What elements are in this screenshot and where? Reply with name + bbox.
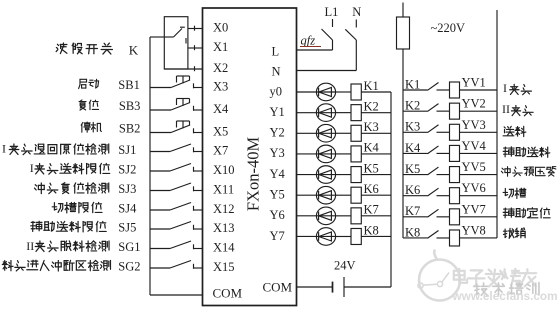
wire: PLC output row 0 to lamp <box>297 91 317 93</box>
designator K <box>129 43 139 58</box>
svg-text:SJ5: SJ5 <box>118 221 136 235</box>
designator SB3 <box>119 99 141 113</box>
wire: left input common bus <box>149 37 151 295</box>
label YV6 <box>462 181 486 195</box>
wire: N switch to PLC N <box>297 70 357 72</box>
watermark text 电子发烧友 <box>454 269 536 287</box>
wire: coil K3 to 24V bus <box>361 132 391 134</box>
pin label X14 <box>213 241 235 255</box>
label YV1 <box>462 76 486 90</box>
label K2 <box>364 99 379 113</box>
label: 拔销 <box>503 228 525 238</box>
wire: coil K8 to 24V bus <box>361 235 391 237</box>
pin label L <box>272 45 280 59</box>
label FXon-40M <box>244 137 263 212</box>
selector K lower contact <box>185 38 187 44</box>
wire: PLC output row 3 to lamp <box>297 153 317 155</box>
label K4 <box>364 141 380 155</box>
svg-text:YV4: YV4 <box>462 139 487 153</box>
label K7 (contact) <box>405 204 420 218</box>
pin label X12 <box>213 202 235 216</box>
limit switch SJ1 <box>150 144 203 152</box>
svg-text:K5: K5 <box>364 161 379 175</box>
svg-text:SG1: SG1 <box>118 240 140 254</box>
label YV7 <box>462 202 486 216</box>
wire: PLC output row 7 to lamp <box>297 235 317 237</box>
relay coil K4 <box>351 146 361 162</box>
label YV2 <box>462 97 486 111</box>
label K3 (contact) <box>405 120 420 134</box>
pin label X5 <box>213 125 228 139</box>
wire: lamp to relay coil K1 <box>336 91 351 93</box>
label L1 <box>325 5 339 19</box>
label K8 <box>364 223 379 237</box>
svg-text:FXon-40M: FXon-40M <box>244 137 263 212</box>
wire: YV6 to AC right bus <box>460 195 498 197</box>
svg-text:SJ2: SJ2 <box>118 163 136 177</box>
switch QF pole L1 <box>322 19 333 50</box>
designator SJ5 <box>118 221 136 235</box>
wire: lamp to relay coil K2 <box>336 112 351 114</box>
solenoid valve YV2 <box>450 103 460 119</box>
wire: PLC output row 1 to lamp <box>297 112 317 114</box>
label K4 (contact) <box>405 141 421 155</box>
label K2 (contact) <box>405 99 420 113</box>
svg-text:Y1: Y1 <box>270 105 285 119</box>
designator SJ3 <box>118 182 136 196</box>
svg-text:I: I <box>2 142 6 156</box>
svg-text:24V: 24V <box>334 259 356 273</box>
relay contact K6 <box>403 188 450 196</box>
pin label Y5 <box>270 188 285 202</box>
svg-text:II: II <box>502 102 510 116</box>
svg-text:N: N <box>272 65 281 79</box>
label: 冲头预压紧 <box>501 167 555 177</box>
wire: coil K2 to 24V bus <box>361 112 391 114</box>
svg-text:SJ3: SJ3 <box>118 182 136 196</box>
wire: K to X1 <box>188 45 203 50</box>
svg-text:www.elecfans.com: www.elecfans.com <box>452 289 558 303</box>
pin label Y1 <box>270 105 285 119</box>
svg-text:YV1: YV1 <box>462 76 486 90</box>
svg-text:II: II <box>26 239 34 253</box>
wire: battery to 24V bus <box>344 286 391 288</box>
svg-text:Y6: Y6 <box>270 208 285 222</box>
label YV5 <box>462 160 486 174</box>
relay coil K7 <box>351 208 361 224</box>
label ~220V <box>431 21 466 35</box>
label K7 <box>364 203 379 217</box>
svg-text:X4: X4 <box>213 102 229 116</box>
label K6 (contact) <box>405 183 420 197</box>
wire: bus to K common <box>150 36 164 38</box>
label K5 <box>364 161 379 175</box>
label YV8 <box>462 223 486 237</box>
wire: YV3 to AC right bus <box>460 131 498 133</box>
wire: K to X0 <box>188 26 203 31</box>
svg-text:K4: K4 <box>364 141 380 155</box>
svg-text:K1: K1 <box>405 77 420 91</box>
designator SB2 <box>119 121 141 135</box>
label: 波段开关 <box>56 43 112 54</box>
svg-text:Y2: Y2 <box>270 126 285 140</box>
svg-text:X3: X3 <box>213 80 228 94</box>
wire: AC left bus <box>402 3 404 238</box>
label: I夹头退回原位检测 <box>2 142 109 156</box>
designator SG2 <box>118 260 140 274</box>
svg-text:y0: y0 <box>270 84 283 98</box>
solenoid valve YV6 <box>450 188 460 204</box>
limit switch SJ5 <box>150 222 203 230</box>
relay contact K5 <box>403 167 450 175</box>
svg-text:Y5: Y5 <box>270 188 285 202</box>
indicator lamp HL6 (LED in circle) <box>316 186 335 204</box>
label: 切槽 <box>503 188 526 198</box>
wire: YV2 to AC right bus <box>460 110 498 112</box>
wire: K box bottom to X2 <box>164 66 202 71</box>
pin label X3 <box>213 80 228 94</box>
solenoid valve YV5 <box>450 167 460 183</box>
PLC controller U1 FXon-40M box <box>203 8 297 306</box>
label: 辅助送料 <box>503 147 550 157</box>
svg-text:K8: K8 <box>405 225 420 239</box>
pin label N <box>272 65 281 79</box>
svg-text:I: I <box>503 81 507 95</box>
wire: lamp to relay coil K8 <box>336 235 351 237</box>
wire: AC right bus <box>496 10 498 238</box>
label: 复位 <box>79 100 99 110</box>
pin label X4 <box>213 102 229 116</box>
wire: L1 switch to PLC L <box>297 49 333 51</box>
relay contact K7 <box>403 209 450 217</box>
wire: PLC COM to battery <box>297 286 333 288</box>
svg-text:L1: L1 <box>325 5 339 19</box>
label YV3 <box>462 118 486 132</box>
pin label COM (output side) <box>263 280 293 295</box>
pin label Y7 <box>270 229 285 243</box>
label: 辅助定位 <box>503 208 550 218</box>
designator SJ4 <box>118 202 137 216</box>
svg-text:SG2: SG2 <box>118 260 140 274</box>
svg-text:Y4: Y4 <box>270 167 286 181</box>
pin label X10 <box>213 163 235 177</box>
solenoid valve YV4 <box>450 145 460 161</box>
svg-text:qfz: qfz <box>301 34 316 48</box>
svg-text:K7: K7 <box>364 203 379 217</box>
indicator lamp HL2 (LED in circle) <box>316 104 335 122</box>
switch QF pole N <box>345 20 356 71</box>
label YV4 <box>462 139 487 153</box>
relay coil K3 <box>351 125 361 141</box>
wire: lamp to relay coil K5 <box>336 174 351 176</box>
limit switch SJ4 <box>150 203 203 211</box>
pin label X1 <box>213 40 228 54</box>
label: 冲头复位检测 <box>34 183 108 194</box>
svg-text:X2: X2 <box>213 61 228 75</box>
label: 切槽限位 <box>52 202 102 212</box>
wire: lamp to relay coil K3 <box>336 132 351 134</box>
svg-text:X0: X0 <box>213 21 228 35</box>
svg-text:K6: K6 <box>364 182 379 196</box>
label qfz <box>300 34 321 48</box>
pin label Y2 <box>270 126 285 140</box>
wire: PLC output row 4 to lamp <box>297 174 317 176</box>
svg-text:K1: K1 <box>364 79 379 93</box>
label: 辅助送料限位 <box>31 221 106 232</box>
pin label X2 <box>213 61 228 75</box>
svg-text:K3: K3 <box>405 120 420 134</box>
pin label X0 <box>213 21 228 35</box>
relay coil K2 <box>351 105 361 121</box>
wire: YV1 to AC right bus <box>460 89 498 91</box>
label K1 <box>364 79 379 93</box>
svg-text:YV2: YV2 <box>462 97 486 111</box>
svg-text:K8: K8 <box>364 223 379 237</box>
limit switch SJ3 <box>150 183 203 191</box>
label: 启动 <box>79 79 99 88</box>
svg-text:SJ4: SJ4 <box>118 202 137 216</box>
svg-text:X14: X14 <box>213 241 235 255</box>
label K3 <box>364 120 379 134</box>
svg-text:K: K <box>129 43 139 58</box>
label K1 (contact) <box>405 77 420 91</box>
svg-text:I: I <box>30 161 34 175</box>
svg-text:K5: K5 <box>405 162 420 176</box>
battery 24V <box>333 277 345 297</box>
pin label COM (input side) <box>213 286 243 301</box>
label N <box>352 5 361 19</box>
label K5 (contact) <box>405 162 420 176</box>
indicator lamp HL8 (LED in circle) <box>316 228 335 246</box>
designator SJ2 <box>118 163 136 177</box>
svg-text:SB2: SB2 <box>119 121 141 135</box>
indicator lamp HL5 (LED in circle) <box>316 166 335 184</box>
relay contact K1 <box>403 83 450 91</box>
svg-text:~220V: ~220V <box>431 21 466 35</box>
wire: coil K1 to 24V bus <box>361 91 391 93</box>
svg-text:K2: K2 <box>364 99 379 113</box>
wire: coil K6 to 24V bus <box>361 194 391 196</box>
label: I夹头送料限位 <box>30 161 110 175</box>
svg-text:K2: K2 <box>405 99 420 113</box>
label: II夹头 <box>502 102 533 116</box>
pin label X11 <box>213 183 234 197</box>
designator SJ1 <box>118 143 136 157</box>
svg-text:YV6: YV6 <box>462 181 486 195</box>
limit switch SJ2 <box>150 164 203 172</box>
wire: 24V right bus <box>390 92 392 287</box>
limit switch SG2 <box>150 261 203 269</box>
wire: lamp to relay coil K7 <box>336 215 351 217</box>
pin label Y6 <box>270 208 285 222</box>
designator SB1 <box>118 78 140 92</box>
pushbutton SB1 <box>150 76 203 88</box>
wire: coil K4 to 24V bus <box>361 153 391 155</box>
relay contact K8 <box>403 230 450 238</box>
svg-text:X7: X7 <box>213 144 228 158</box>
svg-text:X12: X12 <box>213 202 235 216</box>
selector K pole and blade <box>164 27 185 37</box>
svg-text:Y3: Y3 <box>270 146 285 160</box>
pin label X7 <box>213 144 228 158</box>
selector switch K (band switch) box <box>164 17 188 69</box>
label: I夹头 <box>503 81 531 95</box>
svg-text:X10: X10 <box>213 163 235 177</box>
wire: input COM wire to PLC <box>150 294 203 296</box>
relay contact K4 <box>403 146 450 154</box>
pin label y0 <box>270 84 283 98</box>
wire: PLC output row 5 to lamp <box>297 194 317 196</box>
svg-text:YV5: YV5 <box>462 160 486 174</box>
svg-text:SB1: SB1 <box>118 78 140 92</box>
label: 停机 <box>81 122 101 132</box>
wire: lamp to relay coil K4 <box>336 153 351 155</box>
indicator lamp HL3 (LED in circle) <box>316 124 335 142</box>
relay coil K5 <box>351 167 361 183</box>
svg-text:X13: X13 <box>213 221 235 235</box>
wire: YV4 to AC right bus <box>460 152 498 154</box>
relay coil K6 <box>351 187 361 203</box>
pin label X15 <box>213 260 235 274</box>
solenoid valve YV1 <box>450 82 460 98</box>
watermark text 技术培训 <box>475 283 539 296</box>
svg-text:K4: K4 <box>405 141 421 155</box>
svg-text:YV7: YV7 <box>462 202 486 216</box>
wire: coil K7 to 24V bus <box>361 215 391 217</box>
svg-text:COM: COM <box>213 286 243 301</box>
label: 料头进入冲断区检测 <box>2 260 110 271</box>
wire: coil K5 to 24V bus <box>361 174 391 176</box>
watermark logo circle <box>418 250 460 301</box>
label K6 <box>364 182 379 196</box>
wire: PLC output row 2 to lamp <box>297 132 317 134</box>
relay coil K8 <box>351 228 361 244</box>
fuse FU <box>397 17 410 49</box>
svg-text:SB3: SB3 <box>119 99 141 113</box>
svg-text:N: N <box>352 5 361 19</box>
wire: YV8 to AC right bus <box>460 237 498 239</box>
indicator lamp HL1 (LED in circle) <box>316 83 335 101</box>
svg-text:K6: K6 <box>405 183 420 197</box>
relay coil K1 <box>351 84 361 100</box>
designator SG1 <box>118 240 140 254</box>
wire: YV5 to AC right bus <box>460 174 498 176</box>
svg-text:SJ1: SJ1 <box>118 143 136 157</box>
wire: lamp to relay coil K6 <box>336 194 351 196</box>
limit switch SG1 <box>150 241 203 249</box>
relay contact K2 <box>403 104 450 112</box>
svg-text:COM: COM <box>263 280 293 295</box>
relay contact K3 <box>403 125 450 133</box>
svg-text:X15: X15 <box>213 260 235 274</box>
svg-text:X11: X11 <box>213 183 234 197</box>
svg-text:YV3: YV3 <box>462 118 486 132</box>
indicator lamp HL4 (LED in circle) <box>316 145 335 163</box>
pin label Y4 <box>270 167 286 181</box>
solenoid valve YV8 <box>450 230 460 246</box>
solenoid valve YV3 <box>450 124 460 140</box>
wire: PLC output row 6 to lamp <box>297 215 317 217</box>
watermark url www.elecfans.com <box>452 289 558 303</box>
wire: YV7 to AC right bus <box>460 216 498 218</box>
pin label Y3 <box>270 146 285 160</box>
label: 送料 <box>503 126 526 136</box>
solenoid valve YV7 <box>450 209 460 225</box>
svg-text:Y7: Y7 <box>270 229 285 243</box>
label K8 (contact) <box>405 225 420 239</box>
svg-text:K3: K3 <box>364 120 379 134</box>
svg-text:YV8: YV8 <box>462 223 486 237</box>
svg-text:K7: K7 <box>405 204 420 218</box>
label 24V <box>334 259 356 273</box>
pushbutton SB2 <box>150 121 203 133</box>
indicator lamp HL7 (LED in circle) <box>316 207 335 225</box>
svg-text:X1: X1 <box>213 40 228 54</box>
pushbutton SB3 <box>150 99 203 111</box>
svg-text:L: L <box>272 45 280 59</box>
label: II夹头脱料检测 <box>26 239 109 253</box>
svg-text:X5: X5 <box>213 125 228 139</box>
pin label X13 <box>213 221 235 235</box>
